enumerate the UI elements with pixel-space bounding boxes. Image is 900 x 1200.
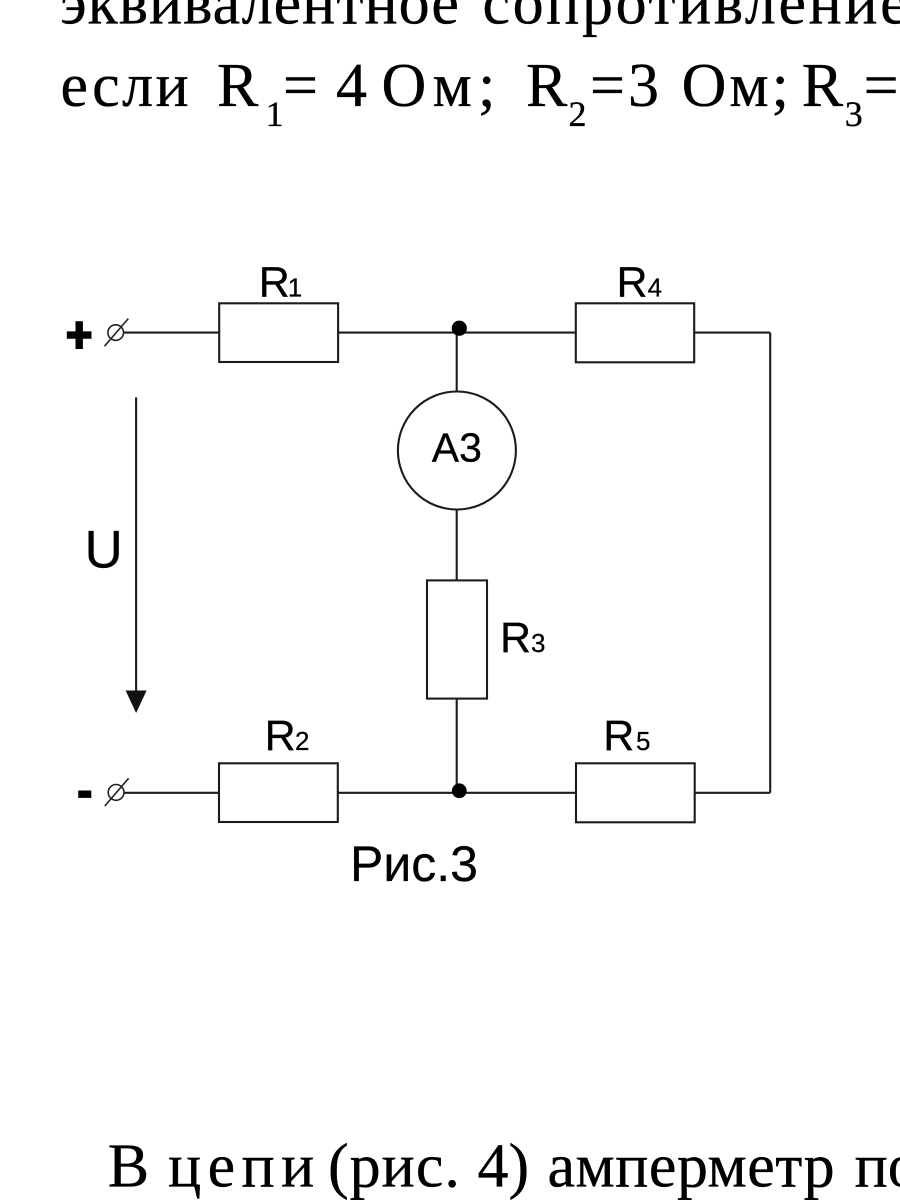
- svg-text:цепи: цепи: [168, 1133, 321, 1200]
- svg-text:2: 2: [569, 94, 587, 134]
- svg-text:R: R: [265, 712, 296, 760]
- svg-text:R: R: [500, 614, 531, 662]
- svg-text:=: =: [864, 52, 899, 120]
- svg-text:(рис.: (рис.: [328, 1133, 461, 1200]
- svg-text:R: R: [259, 259, 290, 307]
- svg-text:R: R: [217, 52, 259, 120]
- svg-text:4: 4: [336, 52, 367, 120]
- svg-text:4: 4: [648, 273, 662, 303]
- svg-text:3: 3: [845, 94, 863, 134]
- svg-text:5: 5: [636, 726, 650, 756]
- svg-text:R: R: [617, 259, 648, 307]
- svg-text:В: В: [108, 1133, 149, 1200]
- svg-text:U: U: [85, 521, 123, 580]
- svg-text:R: R: [603, 712, 634, 760]
- svg-text:амперметр: амперметр: [548, 1133, 836, 1200]
- svg-text:3: 3: [531, 628, 545, 658]
- svg-text:1: 1: [288, 273, 302, 303]
- svg-text:R: R: [526, 52, 568, 120]
- svg-text:A3: A3: [432, 425, 482, 471]
- svg-text:Ом;: Ом;: [382, 52, 502, 120]
- svg-text:2: 2: [295, 726, 309, 756]
- svg-text:=: =: [283, 52, 318, 120]
- svg-text:R: R: [802, 52, 844, 120]
- svg-text:4): 4): [478, 1133, 530, 1200]
- svg-text:сопротивление: сопротивление: [483, 0, 900, 38]
- svg-text:эквивалентное: эквивалентное: [60, 0, 460, 38]
- svg-text:1: 1: [266, 94, 284, 134]
- svg-text:если: если: [61, 52, 192, 120]
- svg-text:Ом;: Ом;: [682, 52, 792, 120]
- svg-text:показывает: показывает: [855, 1133, 900, 1200]
- svg-text:3: 3: [628, 52, 659, 120]
- svg-text:=: =: [590, 52, 625, 120]
- svg-text:Рис.3: Рис.3: [350, 836, 478, 892]
